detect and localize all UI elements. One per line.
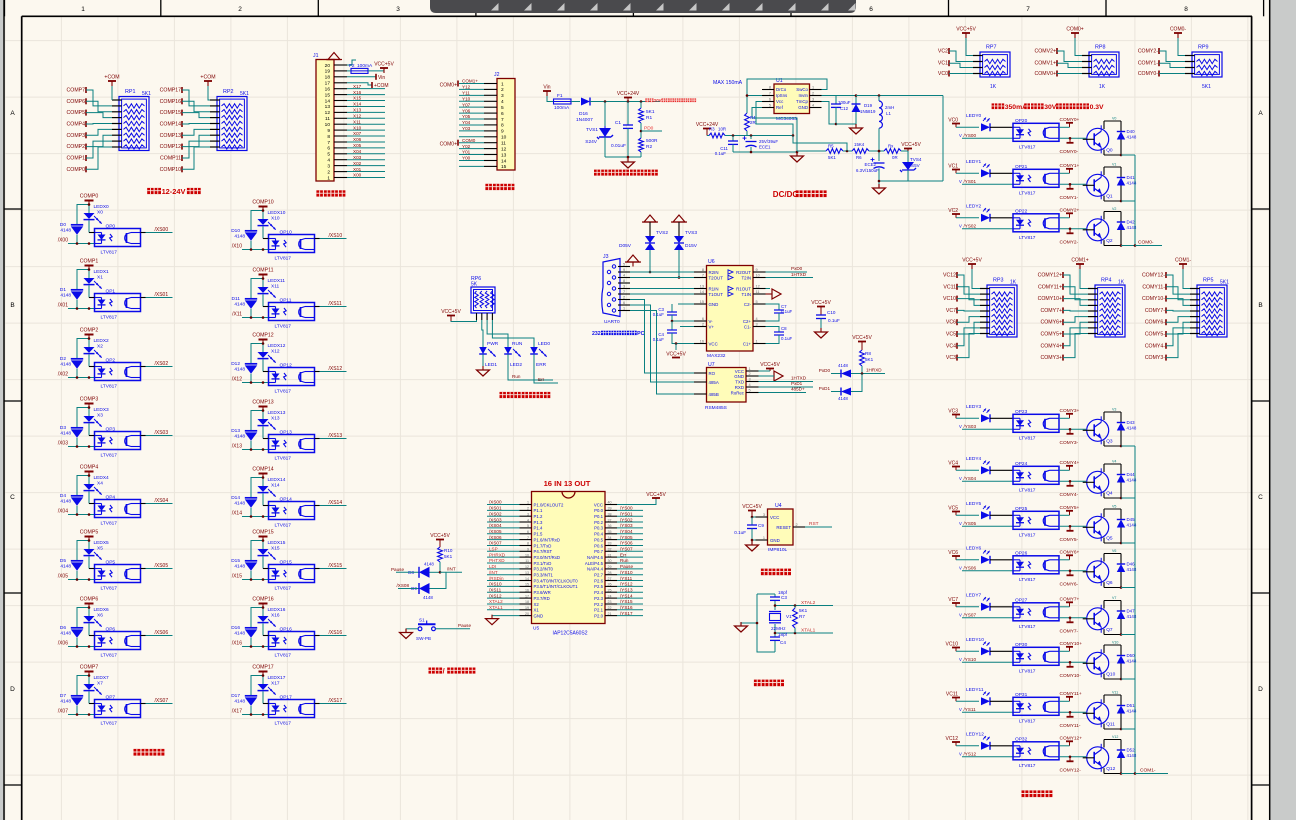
svg-text:X14: X14 xyxy=(353,102,362,107)
svg-text:COMY7-: COMY7- xyxy=(1060,628,1079,634)
svg-text:9: 9 xyxy=(527,548,529,552)
svg-text:LEDY10: LEDY10 xyxy=(966,637,984,643)
svg-text:C4: C4 xyxy=(780,640,786,645)
svg-text:COMY4+: COMY4+ xyxy=(1041,343,1062,349)
svg-text:X03: X03 xyxy=(353,155,362,160)
svg-text:D6: D6 xyxy=(60,625,66,631)
svg-text:X17: X17 xyxy=(353,84,362,89)
diode D42 4148 xyxy=(1117,212,1137,247)
svg-text:12: 12 xyxy=(525,565,529,569)
power ports at J2 xyxy=(440,81,458,148)
annotation 浪涌保护及掉电检测 xyxy=(594,170,600,176)
svg-text:COMY2-: COMY2- xyxy=(1138,49,1158,55)
svg-text:6: 6 xyxy=(327,146,330,152)
svg-text:4148: 4148 xyxy=(1127,135,1137,140)
svg-text:/YS12: /YS12 xyxy=(620,582,633,587)
svg-text:2: 2 xyxy=(796,523,798,527)
svg-text:0.1uF: 0.1uF xyxy=(715,151,727,156)
fuse F2 100mA xyxy=(347,63,384,73)
svg-text:31: 31 xyxy=(608,553,612,557)
svg-text:P0.5: P0.5 xyxy=(594,537,603,542)
wire output net /XS15 xyxy=(315,563,347,569)
svg-text:A: A xyxy=(10,110,15,117)
svg-text:X04: X04 xyxy=(353,149,362,154)
power stub COMY6+ xyxy=(1059,550,1080,560)
svg-text:14: 14 xyxy=(325,98,331,104)
svg-text:LTV817: LTV817 xyxy=(101,721,118,727)
svg-text:/YS07: /YS07 xyxy=(620,547,633,552)
svg-text:500R: 500R xyxy=(646,138,658,144)
output channel Q4 xyxy=(948,456,1013,481)
svg-text:D0: D0 xyxy=(60,222,66,228)
svg-text:VCC+5V: VCC+5V xyxy=(441,309,461,315)
svg-text:17: 17 xyxy=(325,81,331,87)
svg-text:/XS11: /XS11 xyxy=(489,587,502,592)
svg-text:15: 15 xyxy=(700,300,704,304)
svg-text:7: 7 xyxy=(623,290,625,294)
svg-text:4148: 4148 xyxy=(234,699,245,705)
svg-text:R1OUT: R1OUT xyxy=(736,286,751,291)
svg-text:4: 4 xyxy=(812,104,814,108)
svg-text:P3.2/INT0: P3.2/INT0 xyxy=(534,567,554,572)
wire output net /XS01 xyxy=(141,292,173,298)
input channel COMP15 xyxy=(231,530,286,581)
svg-text:2: 2 xyxy=(812,92,814,96)
svg-text:RP1: RP1 xyxy=(125,89,136,95)
svg-text:VCC+5V: VCC+5V xyxy=(811,300,831,306)
svg-text:3: 3 xyxy=(763,513,765,517)
svg-text:/X17: /X17 xyxy=(232,709,243,715)
svg-text:LDI: LDI xyxy=(489,564,496,569)
TVS4 S5V xyxy=(879,151,922,181)
svg-text:D14: D14 xyxy=(231,495,240,501)
svg-text:/YS14: /YS14 xyxy=(620,593,633,598)
svg-text:/X11: /X11 xyxy=(232,312,242,318)
wire output net /XS03 xyxy=(141,430,173,436)
svg-text:5: 5 xyxy=(327,152,330,158)
svg-text:LTV817: LTV817 xyxy=(1019,190,1036,196)
optocoupler OP10 LTV817 xyxy=(263,230,315,262)
svg-text:COMY6-: COMY6- xyxy=(1060,581,1079,587)
net PD0 xyxy=(640,123,662,138)
svg-text:P1.5: P1.5 xyxy=(534,532,543,537)
wire COM0- bus xyxy=(1134,155,1162,247)
transistor Q6 8050 xyxy=(1083,549,1121,588)
output channel Q10 xyxy=(945,637,1013,662)
optocoupler OP15 LTV817 xyxy=(263,560,315,592)
svg-text:V4: V4 xyxy=(1112,460,1116,464)
svg-text:/YS15: /YS15 xyxy=(620,599,633,604)
svg-text:X7: X7 xyxy=(97,681,103,687)
svg-text:X2: X2 xyxy=(97,344,103,350)
net COMY11- xyxy=(1059,711,1086,729)
svg-text:VC4: VC4 xyxy=(946,343,956,349)
svg-text:30: 30 xyxy=(608,559,612,563)
svg-text:LTV817: LTV817 xyxy=(275,324,292,330)
svg-text:P3.5/T1/INT/CLKOUT1: P3.5/T1/INT/CLKOUT1 xyxy=(534,584,579,589)
svg-text:D7: D7 xyxy=(60,693,66,699)
svg-text:LTV817: LTV817 xyxy=(275,721,292,727)
svg-text:IpSns: IpSns xyxy=(776,93,788,98)
svg-text:27: 27 xyxy=(608,577,612,581)
nets right of U7 xyxy=(759,376,814,393)
svg-text:/X01: /X01 xyxy=(58,303,69,309)
svg-text:Y05: Y05 xyxy=(462,114,471,119)
annotation 输出接口 xyxy=(485,184,492,190)
svg-text:VC5: VC5 xyxy=(946,332,956,338)
capacitor C10 0.1uF xyxy=(811,300,840,338)
svg-text:1: 1 xyxy=(327,175,330,181)
svg-text:LTV817: LTV817 xyxy=(101,453,118,459)
svg-text:1HTXD: 1HTXD xyxy=(791,272,807,277)
svg-text:2: 2 xyxy=(702,323,704,327)
annotation 晶振电路 xyxy=(754,680,761,687)
svg-text:7: 7 xyxy=(702,274,704,278)
svg-text:P0.6: P0.6 xyxy=(594,543,603,548)
svg-text:RSM485S: RSM485S xyxy=(705,405,727,411)
optocoupler OP12 LTV817 xyxy=(263,363,315,395)
svg-text:VCC: VCC xyxy=(770,515,779,520)
resistor Rx 0R xyxy=(884,144,908,161)
svg-text:/XS17: /XS17 xyxy=(329,698,343,704)
svg-text:V7: V7 xyxy=(1112,596,1116,600)
svg-text:0.1uF: 0.1uF xyxy=(734,530,746,535)
svg-text:COMP2: COMP2 xyxy=(67,144,86,150)
svg-text:Pause: Pause xyxy=(458,623,471,628)
svg-text:R3: R3 xyxy=(709,127,715,132)
svg-text:COMP16: COMP16 xyxy=(160,99,181,105)
svg-text:3: 3 xyxy=(527,512,529,516)
svg-text:C: C xyxy=(1258,494,1263,501)
svg-text:/: / xyxy=(443,667,445,676)
svg-text:B: B xyxy=(10,302,14,309)
power port VCC+5V (reset) xyxy=(742,504,762,518)
diode D28 4148 xyxy=(819,363,885,378)
svg-text:5K1: 5K1 xyxy=(865,357,874,362)
svg-text:C8: C8 xyxy=(781,326,787,331)
svg-text:8: 8 xyxy=(327,134,330,140)
svg-text:P2.3: P2.3 xyxy=(594,596,603,601)
svg-text:VCC: VCC xyxy=(709,341,718,346)
svg-text:1: 1 xyxy=(756,340,758,344)
connector J2 output header xyxy=(484,72,515,170)
svg-text:D13: D13 xyxy=(231,428,240,434)
svg-text:LTV817: LTV817 xyxy=(1019,763,1036,769)
svg-text:2: 2 xyxy=(327,169,330,175)
svg-text:P2.5: P2.5 xyxy=(594,584,603,589)
net COMY0- xyxy=(1059,137,1086,155)
svg-text:LTV817: LTV817 xyxy=(275,653,292,659)
net COMY10- xyxy=(1059,661,1086,679)
svg-text:16: 16 xyxy=(525,588,529,592)
svg-text:COMY3+: COMY3+ xyxy=(1041,355,1062,361)
svg-text:C1+: C1+ xyxy=(743,341,752,346)
power stub COMY12+ xyxy=(1059,736,1082,746)
svg-text:X12: X12 xyxy=(353,113,362,118)
svg-text:COMP6: COMP6 xyxy=(80,597,99,603)
svg-text:6: 6 xyxy=(527,530,529,534)
svg-text:COMP12: COMP12 xyxy=(160,144,181,150)
optocoupler OP16 LTV817 xyxy=(263,627,315,659)
power stub COMY3+ xyxy=(1059,408,1080,418)
svg-text:15: 15 xyxy=(501,164,507,170)
ground (pwr led) xyxy=(477,360,490,376)
svg-text:S1: S1 xyxy=(419,618,425,623)
ground (dcdc left) xyxy=(733,151,804,162)
power stub COMY0+ xyxy=(1059,117,1080,127)
svg-text:COMY11-: COMY11- xyxy=(1142,284,1165,290)
input channel COMP13 xyxy=(231,400,286,451)
svg-text:LTV817: LTV817 xyxy=(101,653,118,659)
svg-text:4: 4 xyxy=(327,158,330,164)
ground (surge) xyxy=(605,156,641,168)
svg-text:Vcc: Vcc xyxy=(776,99,784,104)
annotation 接受12-24V输入 xyxy=(147,188,153,194)
svg-text:LEDY5: LEDY5 xyxy=(966,501,982,507)
svg-text:VC12: VC12 xyxy=(943,273,956,279)
svg-text:22MHz: 22MHz xyxy=(771,626,786,631)
svg-text:6: 6 xyxy=(869,6,873,13)
svg-text:XTAL2: XTAL2 xyxy=(489,599,503,604)
svg-text:LEDX14: LEDX14 xyxy=(268,477,286,483)
svg-text:P2.1: P2.1 xyxy=(594,608,603,613)
svg-text:/YS05: /YS05 xyxy=(620,535,633,540)
wires RP5 xyxy=(1142,269,1190,361)
svg-text:J1: J1 xyxy=(313,53,319,59)
power port VCC+5V (leds) xyxy=(441,309,461,321)
svg-text:15: 15 xyxy=(325,92,331,98)
svg-text:D15V: D15V xyxy=(685,243,698,249)
svg-text:/X16: /X16 xyxy=(232,641,243,647)
svg-text:2: 2 xyxy=(623,296,625,300)
svg-text:U4: U4 xyxy=(775,503,782,509)
wires RP7 xyxy=(938,38,997,90)
svg-text:30V: 30V xyxy=(1044,104,1057,111)
svg-text:Q0: Q0 xyxy=(1106,147,1113,153)
svg-text:B: B xyxy=(1258,302,1262,309)
svg-text:X00: X00 xyxy=(353,173,362,178)
transistor Q3 8050 xyxy=(1083,408,1121,447)
resistor R3 10R xyxy=(709,127,794,138)
svg-text:/X12: /X12 xyxy=(232,377,243,383)
svg-text:P1.2: P1.2 xyxy=(534,514,543,519)
svg-text:RoRec: RoRec xyxy=(731,390,745,395)
svg-text:P1.4: P1.4 xyxy=(534,526,543,531)
connector J1 input header xyxy=(313,53,347,181)
svg-text:485A: 485A xyxy=(709,380,719,385)
svg-text:39: 39 xyxy=(608,507,612,511)
svg-text:P1.6/INT/RxD: P1.6/INT/RxD xyxy=(534,537,561,542)
optocoupler OP30 LTV817 xyxy=(1013,642,1059,674)
svg-text:34: 34 xyxy=(608,536,612,540)
svg-text:8: 8 xyxy=(702,268,704,272)
svg-text:X3: X3 xyxy=(97,413,103,419)
svg-text:/YS02: /YS02 xyxy=(964,223,977,228)
net COMY6- xyxy=(1059,570,1086,588)
svg-text:GND: GND xyxy=(798,105,808,110)
svg-text:LEDX13: LEDX13 xyxy=(268,410,286,416)
svg-text:LTV817: LTV817 xyxy=(1019,718,1036,724)
svg-text:D41: D41 xyxy=(1127,175,1136,180)
svg-text:COMP3: COMP3 xyxy=(80,397,99,403)
svg-text:P1.7/TxD: P1.7/TxD xyxy=(534,543,552,548)
svg-text:C2+: C2+ xyxy=(743,319,752,324)
svg-text:X5: X5 xyxy=(97,546,103,552)
svg-text:RP7: RP7 xyxy=(986,45,997,51)
wire net Run xyxy=(508,360,553,380)
resistor R1 5K1 xyxy=(639,102,655,124)
optocoupler OP25 LTV817 xyxy=(1013,506,1059,538)
optocoupler OP20 LTV817 xyxy=(1013,118,1059,150)
svg-text:DC/DC: DC/DC xyxy=(773,190,799,199)
svg-text:LTV817: LTV817 xyxy=(275,389,292,395)
svg-text:LTV817: LTV817 xyxy=(1019,532,1036,538)
svg-text:COMP4: COMP4 xyxy=(67,122,86,128)
svg-text:4148: 4148 xyxy=(234,501,245,507)
svg-text:R1: R1 xyxy=(646,115,652,121)
power port COM0+ xyxy=(1066,27,1083,39)
svg-text:4: 4 xyxy=(501,99,504,105)
ground (S1) xyxy=(400,629,419,639)
svg-text:Q6: Q6 xyxy=(1106,580,1113,586)
svg-text:12: 12 xyxy=(325,110,331,116)
svg-text:D16: D16 xyxy=(579,111,588,117)
svg-text:COMY7+: COMY7+ xyxy=(1041,308,1062,314)
svg-text:8: 8 xyxy=(501,123,504,129)
optocoupler OP7 LTV817 xyxy=(89,695,141,727)
power port VCC+5V (R10) xyxy=(430,533,450,547)
svg-text:LEDX2: LEDX2 xyxy=(94,338,110,344)
svg-text:P3.4/T0/INT/CLKOUT0: P3.4/T0/INT/CLKOUT0 xyxy=(534,578,579,583)
svg-text:P0.0: P0.0 xyxy=(594,508,603,513)
svg-text:COMY6-: COMY6- xyxy=(1145,320,1165,326)
svg-text:COMP13: COMP13 xyxy=(252,400,273,406)
diode D50 4148 xyxy=(1117,645,1137,680)
svg-text:485D+: 485D+ xyxy=(791,387,805,392)
sheet outer border lines and margins xyxy=(0,0,3,820)
svg-text:14: 14 xyxy=(525,577,529,581)
svg-text:X15: X15 xyxy=(271,546,280,552)
svg-text:LEDY1: LEDY1 xyxy=(966,159,982,165)
svg-text:LTV817: LTV817 xyxy=(101,315,118,321)
svg-text:COMP5: COMP5 xyxy=(80,530,99,536)
svg-text:COMP10: COMP10 xyxy=(252,200,273,206)
svg-text:MAX 150mA: MAX 150mA xyxy=(713,80,743,86)
svg-text:PxD0: PxD0 xyxy=(791,266,803,271)
svg-text:IAP12C5A60S2: IAP12C5A60S2 xyxy=(552,631,587,637)
svg-text:5K1: 5K1 xyxy=(1220,280,1229,286)
annotation 输出电路 xyxy=(1022,790,1029,797)
svg-text:6: 6 xyxy=(501,111,504,117)
svg-text:X11: X11 xyxy=(271,284,280,290)
inductor L1 2mH xyxy=(856,94,943,181)
svg-text:4148: 4148 xyxy=(60,431,71,437)
svg-text:R2OUT: R2OUT xyxy=(736,270,751,275)
net Vin at J1 xyxy=(347,74,385,81)
optocoupler OP5 LTV817 xyxy=(89,560,141,592)
resistor R5 5K1 xyxy=(793,136,852,161)
svg-text:485B: 485B xyxy=(709,392,719,397)
port arrow (J3 pin5) xyxy=(625,255,641,267)
svg-text:VCC: VCC xyxy=(594,502,603,507)
svg-text:7: 7 xyxy=(1026,6,1030,13)
svg-text:COMP0: COMP0 xyxy=(80,194,99,200)
svg-text:D44: D44 xyxy=(1127,472,1136,477)
switch S1 SW-PB xyxy=(416,618,471,642)
svg-text:LEDX11: LEDX11 xyxy=(268,278,286,284)
svg-text:V11: V11 xyxy=(1112,691,1118,695)
svg-text:LEDX17: LEDX17 xyxy=(268,675,286,681)
transistor Q11 8050 xyxy=(1083,691,1121,730)
power port VCC+5V (U7) xyxy=(759,362,781,371)
wires RP8 xyxy=(1035,38,1106,90)
svg-text:/YS04: /YS04 xyxy=(620,529,633,534)
svg-text:LTV817: LTV817 xyxy=(1019,144,1036,150)
svg-text:/XS05: /XS05 xyxy=(489,529,502,534)
diode D43 4148 xyxy=(1117,412,1137,447)
power stub COMY2+ xyxy=(1059,208,1080,218)
optocoupler OP24 LTV817 xyxy=(1013,461,1059,493)
svg-text:100mA: 100mA xyxy=(554,105,570,111)
transistor Q0 8050 xyxy=(1083,117,1121,156)
svg-text:/YS06: /YS06 xyxy=(964,565,977,570)
svg-text:LEDX0: LEDX0 xyxy=(94,204,110,210)
svg-text:PxD1: PxD1 xyxy=(819,386,831,391)
svg-text:COMV2+: COMV2+ xyxy=(1035,49,1056,55)
svg-text:4148: 4148 xyxy=(424,562,434,567)
svg-text:Pause: Pause xyxy=(620,564,633,569)
svg-text:VC3: VC3 xyxy=(946,355,956,361)
svg-text:4148: 4148 xyxy=(838,363,848,368)
svg-text:LTV817: LTV817 xyxy=(1019,668,1036,674)
annotation 输入接口 xyxy=(316,190,323,196)
svg-text:X01: X01 xyxy=(353,167,362,172)
svg-text:7: 7 xyxy=(501,117,504,123)
svg-text:RP2: RP2 xyxy=(223,89,234,95)
svg-text:18pf: 18pf xyxy=(778,632,788,637)
svg-text:4148: 4148 xyxy=(234,564,245,570)
top ruler zone ticks and numbers xyxy=(5,0,1264,16)
svg-text:TVS3: TVS3 xyxy=(685,230,697,236)
electrolytic ECE2 6.3V/150uF xyxy=(856,150,885,184)
svg-text:V1: V1 xyxy=(786,614,792,619)
svg-text:TXD: TXD xyxy=(735,379,744,384)
svg-text:100mA: 100mA xyxy=(357,63,373,69)
svg-text:/XS03: /XS03 xyxy=(489,517,502,522)
svg-text:COMP17: COMP17 xyxy=(160,88,181,94)
J2 pin nets xyxy=(459,79,484,167)
svg-text:COMP14: COMP14 xyxy=(160,122,181,128)
svg-text:/XS03: /XS03 xyxy=(155,430,169,436)
svg-text:/XS02: /XS02 xyxy=(489,511,502,516)
optocoupler OP17 LTV817 xyxy=(263,695,315,727)
annotation 输入电路 xyxy=(134,749,141,756)
optocoupler OP32 LTV817 xyxy=(1013,737,1059,769)
svg-text:C3: C3 xyxy=(781,595,787,600)
svg-text:0R: 0R xyxy=(892,155,898,160)
svg-text:PHRXD: PHRXD xyxy=(489,552,506,557)
svg-text:8: 8 xyxy=(769,86,771,90)
svg-text:9: 9 xyxy=(756,268,758,272)
svg-text:V10: V10 xyxy=(1112,641,1118,645)
svg-text:P0.4: P0.4 xyxy=(594,532,603,537)
svg-text:Y04: Y04 xyxy=(462,120,471,125)
svg-text:100uF: 100uF xyxy=(838,100,851,105)
svg-text:P3.6/WR: P3.6/WR xyxy=(534,590,551,595)
svg-text:/XS12: /XS12 xyxy=(329,366,343,372)
svg-text:COM1-: COM1- xyxy=(1175,258,1191,264)
svg-text:LED1: LED1 xyxy=(485,362,497,368)
